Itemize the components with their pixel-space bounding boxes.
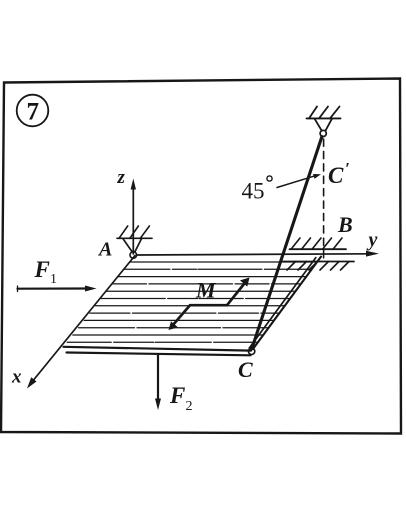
svg-text:2: 2: [186, 399, 193, 414]
45 degree leader line: [277, 174, 321, 188]
wall at B upper line: [290, 248, 347, 250]
support A hinge circle: [130, 252, 137, 259]
force F1 arrow: [18, 286, 97, 292]
svg-text:B: B: [337, 212, 353, 237]
plate right edge outer: [253, 257, 321, 350]
rod from anchor to C: [252, 137, 322, 349]
svg-text:M: M: [195, 278, 217, 303]
label F2: [169, 383, 193, 414]
dashed vertical line from anchor to B: [323, 139, 325, 262]
svg-text:C: C: [328, 163, 344, 188]
svg-text:′: ′: [345, 159, 350, 178]
svg-text:F: F: [34, 257, 50, 282]
svg-text:A: A: [97, 239, 112, 261]
svg-text:7: 7: [27, 99, 40, 126]
plate hatch lines: [67, 262, 317, 342]
svg-text:F: F: [169, 383, 185, 408]
top anchor hatching: [309, 107, 340, 119]
label F1: [34, 257, 58, 287]
z-axis: [117, 167, 137, 254]
plate right edge thickness line: [249, 258, 315, 348]
wall at B upper hatching: [291, 238, 342, 249]
top anchor ceiling line: [307, 117, 341, 119]
frame border: [1, 79, 401, 434]
support A hatching: [119, 226, 149, 238]
45 degree label: [242, 176, 273, 204]
corner C hinge circle: [248, 348, 254, 354]
svg-text:y: y: [367, 229, 378, 251]
plate bottom edge outer: [64, 347, 252, 351]
x-axis: [11, 256, 135, 389]
svg-text:x: x: [11, 367, 22, 388]
support A ceiling line: [117, 237, 152, 239]
support A pivot triangle: [123, 238, 142, 251]
problem number circle 7: [17, 95, 49, 127]
svg-text:45: 45: [242, 179, 265, 204]
svg-text:1: 1: [50, 272, 57, 287]
y-axis: [137, 229, 379, 257]
top anchor triangle: [314, 118, 332, 130]
svg-text:C: C: [238, 357, 253, 382]
top anchor hinge circle: [320, 130, 326, 136]
wall at B lower line: [283, 261, 354, 263]
force F2 arrow: [155, 355, 161, 411]
svg-text:z: z: [117, 167, 126, 188]
moment M couple arrow: [169, 278, 250, 331]
plate bottom edge thickness line: [67, 353, 251, 356]
wall at B lower hatching: [287, 262, 349, 271]
